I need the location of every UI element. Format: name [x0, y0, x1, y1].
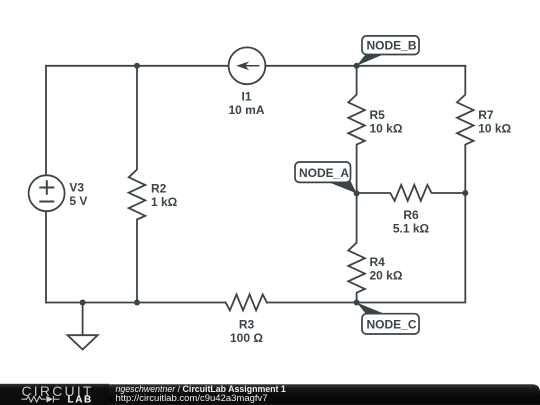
label R3 value	[230, 318, 263, 346]
svg-text:100 Ω: 100 Ω	[230, 331, 263, 345]
svg-text:R2: R2	[151, 181, 167, 195]
label R2 value	[151, 181, 178, 209]
footer bar	[0, 384, 540, 405]
svg-text:5 V: 5 V	[69, 194, 87, 208]
svg-text:R5: R5	[370, 108, 386, 122]
wire right vertical lower	[464, 193, 466, 303]
svg-text:NODE_B: NODE_B	[367, 39, 417, 53]
svg-text:20 kΩ: 20 kΩ	[370, 268, 403, 282]
svg-text:5.1 kΩ: 5.1 kΩ	[393, 221, 430, 235]
svg-text:LAB: LAB	[68, 395, 93, 405]
label R5 value	[370, 108, 403, 136]
resistor R5	[348, 66, 365, 194]
ground	[68, 303, 98, 350]
footer logo resistor-diode symbol	[22, 396, 60, 403]
resistor R6	[357, 185, 466, 201]
junction R6-R7	[462, 190, 468, 196]
label R7 value	[478, 108, 511, 136]
wire left vertical upper	[45, 66, 47, 175]
resistor R4	[348, 193, 365, 302]
svg-text:1 kΩ: 1 kΩ	[151, 195, 178, 209]
junction top R2	[134, 63, 140, 69]
svg-text:10 kΩ: 10 kΩ	[370, 122, 403, 136]
svg-text:V3: V3	[69, 180, 84, 194]
node NODE_C	[357, 303, 419, 335]
node NODE_B	[357, 36, 419, 66]
label R6 value	[393, 208, 430, 236]
wire bottom-right segment	[267, 302, 465, 304]
wire bottom-left segment	[46, 302, 226, 304]
resistor R2	[129, 66, 146, 303]
resistor R7	[457, 66, 474, 193]
svg-text:10 kΩ: 10 kΩ	[478, 122, 511, 136]
svg-text:http://circuitlab.com/c9u42a3m: http://circuitlab.com/c9u42a3magfv7	[116, 393, 268, 404]
junction node B	[354, 63, 360, 69]
voltage source V3	[29, 175, 65, 211]
svg-text:NODE_C: NODE_C	[367, 318, 417, 332]
wire top-right segment	[266, 65, 466, 67]
svg-text:I1: I1	[241, 90, 251, 104]
svg-text:10 mA: 10 mA	[228, 103, 264, 117]
svg-text:R3: R3	[239, 318, 255, 332]
junction node C	[354, 300, 360, 306]
junction ground	[80, 300, 86, 306]
node NODE_A	[295, 162, 357, 193]
current source I1	[229, 47, 266, 84]
svg-text:NODE_A: NODE_A	[299, 166, 349, 180]
svg-text:R6: R6	[403, 208, 419, 222]
label V3 value	[69, 180, 87, 208]
footer logo background	[0, 384, 109, 405]
wire left vertical lower	[45, 211, 47, 302]
svg-text:R7: R7	[478, 108, 494, 122]
label I1 value	[228, 90, 264, 118]
resistor R3	[226, 294, 267, 310]
svg-text:R4: R4	[370, 255, 386, 269]
junction bottom R2	[134, 300, 140, 306]
junction node A	[354, 190, 360, 196]
wire top-left segment	[46, 65, 229, 67]
label R4 value	[370, 255, 403, 283]
